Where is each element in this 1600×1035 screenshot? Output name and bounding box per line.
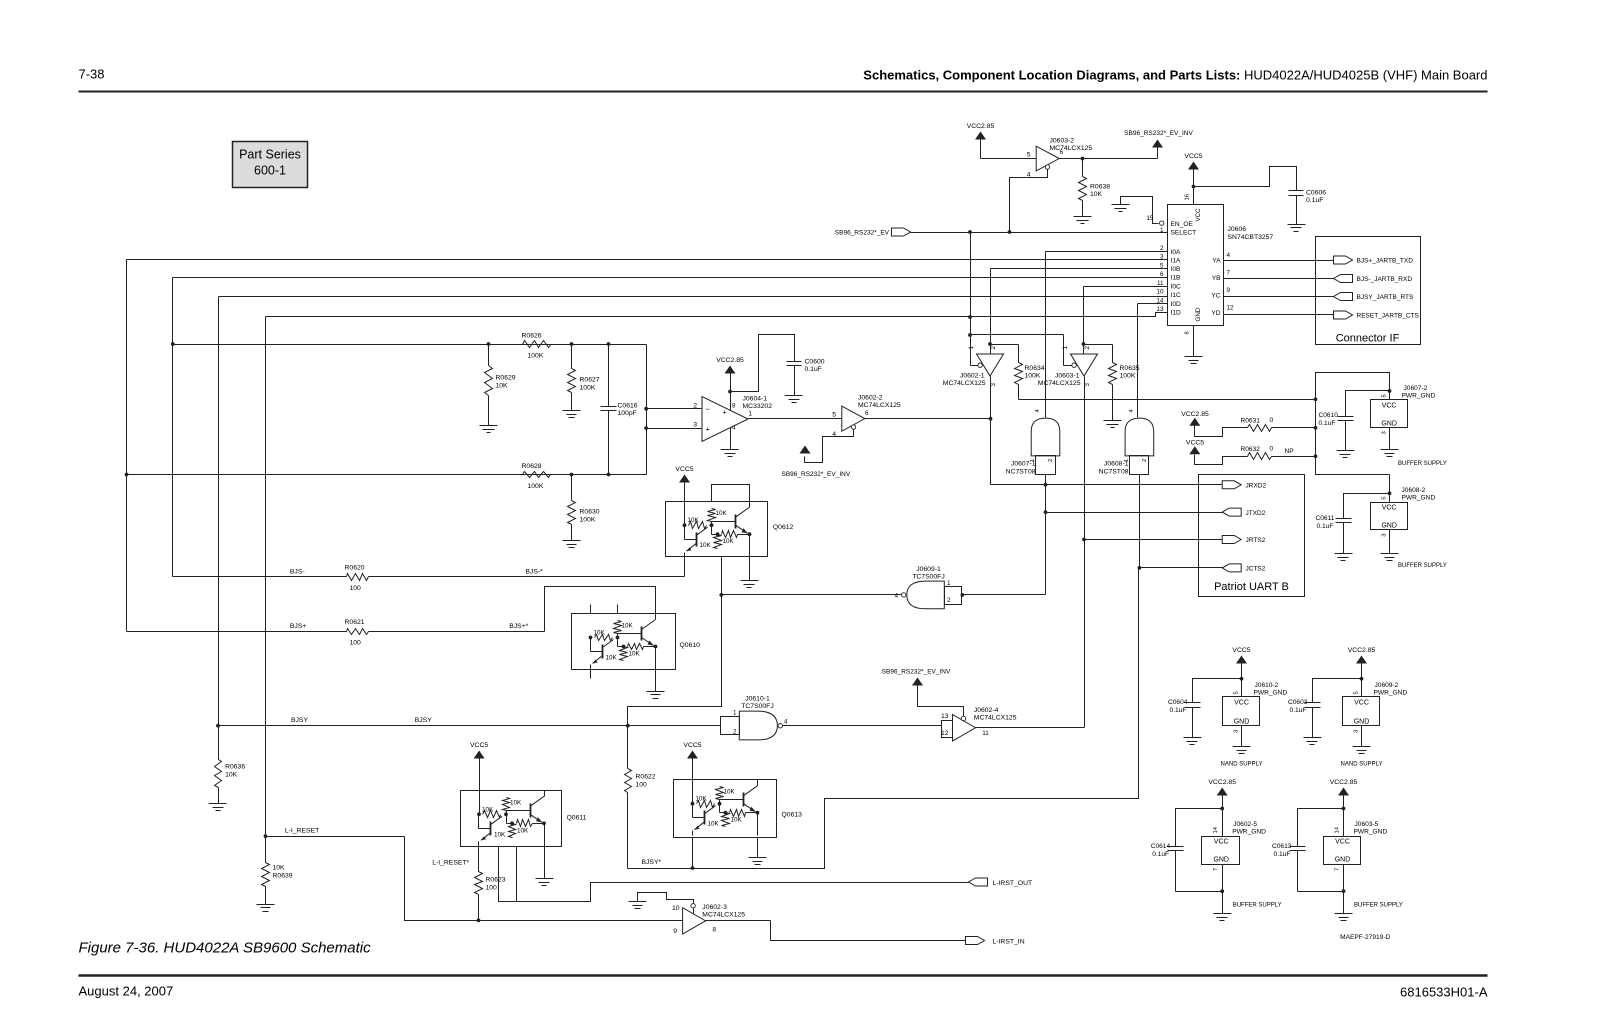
port arrow JRTS2 (1222, 536, 1265, 545)
resistor R0632 (1241, 446, 1316, 460)
svg-text:5: 5 (1027, 152, 1031, 159)
svg-text:SELECT: SELECT (1171, 230, 1197, 237)
wire JTXD2 (1046, 512, 1223, 514)
wire J0607-2 gnd (1381, 428, 1399, 457)
svg-text:BJS+_JARTB_TXD: BJS+_JARTB_TXD (1357, 258, 1414, 265)
svg-text:SB96_RS232*_EV_INV: SB96_RS232*_EV_INV (782, 471, 851, 478)
ground under R0629 (480, 426, 498, 433)
svg-text:10K: 10K (517, 827, 529, 834)
wire J0602-3 enable (638, 893, 694, 904)
svg-text:BJS-_JARTB_RXD: BJS-_JARTB_RXD (1357, 276, 1413, 283)
svg-text:R0636: R0636 (225, 764, 245, 771)
resistor R0630 (568, 475, 600, 541)
wire corner1 vertical (126, 260, 128, 632)
resistor R0636 (215, 726, 246, 804)
wire vcc to C0606 (1194, 167, 1297, 191)
svg-text:0: 0 (1270, 446, 1274, 453)
supply box J0607-2 (1371, 385, 1436, 435)
svg-text:3: 3 (1160, 254, 1164, 261)
vcc5 at Q0613 (683, 742, 701, 803)
svg-text:0.1uF: 0.1uF (1170, 707, 1187, 714)
vcc5 at chip (1184, 153, 1202, 205)
wire I1A bus (127, 259, 1168, 261)
svg-text:R0635: R0635 (1120, 365, 1140, 372)
buffer J0602-1 (943, 346, 1004, 387)
capacitor C0606 (1289, 190, 1327, 225)
vcc5 at Q0611 (470, 742, 488, 814)
svg-text:BJS-: BJS- (290, 569, 305, 576)
svg-text:JCTS2: JCTS2 (1246, 566, 1266, 573)
svg-text:10K: 10K (225, 772, 238, 779)
bubble J0602-1 (978, 363, 982, 367)
svg-text:10K: 10K (700, 542, 712, 549)
svg-text:Part Series: Part Series (239, 148, 301, 162)
svg-text:J0608-2: J0608-2 (1402, 487, 1426, 494)
svg-text:3: 3 (693, 422, 697, 429)
svg-text:SB96_RS232*_EV_INV: SB96_RS232*_EV_INV (882, 669, 951, 676)
svg-text:PWR_GND: PWR_GND (1374, 690, 1408, 697)
svg-text:L-I_RESET: L-I_RESET (285, 828, 319, 835)
svg-text:PWR_GND: PWR_GND (1232, 829, 1266, 836)
wire L-I_RESET drop (405, 837, 683, 923)
svg-text:5: 5 (1382, 394, 1388, 397)
svg-text:R0627: R0627 (580, 377, 600, 384)
ground to EN_OE (1112, 197, 1159, 224)
svg-text:3: 3 (1354, 730, 1360, 733)
svg-text:R0629: R0629 (496, 375, 516, 382)
resistor R0635 (1109, 363, 1140, 421)
svg-text:2: 2 (693, 403, 697, 410)
transistor pack Q0610 (572, 614, 701, 670)
footer rule (79, 974, 1488, 977)
svg-text:I0B: I0B (1171, 266, 1181, 273)
svg-text:VCC5: VCC5 (1184, 153, 1202, 160)
part series callout box (233, 142, 308, 188)
svg-text:BJSY*: BJSY* (642, 859, 662, 866)
wire enable into J0602-1 (971, 365, 978, 367)
wire opamp pin3 feed (644, 426, 701, 430)
svg-text:NC7ST08: NC7ST08 (1006, 469, 1036, 476)
svg-text:10K: 10K (482, 806, 494, 813)
svg-text:3: 3 (1234, 730, 1240, 733)
svg-text:+: + (706, 425, 711, 434)
vcc2.85 R0631 (1181, 411, 1247, 437)
svg-text:2: 2 (1142, 459, 1148, 462)
wire J0602-3 out (706, 921, 966, 941)
wire J0603-1 out (1082, 377, 1086, 542)
svg-text:J0602-4: J0602-4 (974, 707, 999, 714)
wire YA (1224, 260, 1334, 262)
gate J0608-1 (1099, 409, 1154, 476)
vcc2.85 at op-amp (716, 357, 744, 411)
svg-text:4: 4 (784, 719, 788, 726)
svg-text:Q0613: Q0613 (782, 812, 803, 819)
svg-text:I0A: I0A (1171, 249, 1181, 256)
svg-text:6: 6 (865, 410, 869, 417)
svg-text:1: 1 (968, 346, 975, 350)
chip right pin numbers (1227, 252, 1235, 312)
svg-text:GND: GND (1381, 523, 1397, 530)
svg-text:VCC2.85: VCC2.85 (1348, 647, 1376, 654)
svg-text:6: 6 (1060, 149, 1064, 156)
buffer J0603-2 (1027, 138, 1093, 179)
wire gate1 out (1044, 475, 1048, 595)
svg-text:MC74LCX125: MC74LCX125 (943, 380, 986, 387)
port arrow JCTS2 (1222, 564, 1266, 573)
svg-text:0.1uF: 0.1uF (1319, 420, 1336, 427)
resistor R0620 (345, 565, 369, 593)
net label BJS+ (290, 623, 306, 630)
svg-text:10K: 10K (688, 517, 700, 524)
wire gate2 out (1139, 475, 1141, 568)
svg-text:VCC: VCC (1335, 839, 1350, 846)
svg-text:NAND SUPPLY: NAND SUPPLY (1341, 762, 1383, 768)
svg-text:VCC2.85: VCC2.85 (967, 123, 995, 130)
svg-text:VCC: VCC (1214, 839, 1229, 846)
svg-text:10K: 10K (273, 865, 286, 872)
svg-text:August 24, 2007: August 24, 2007 (79, 984, 174, 999)
svg-text:2: 2 (947, 597, 951, 604)
svg-text:0: 0 (1270, 417, 1274, 424)
supply box J0608-2 (1371, 487, 1436, 537)
net arrow SB96_RS232*_EV_INV low (882, 669, 951, 686)
Patriot UART B box (1199, 475, 1305, 597)
svg-text:10K: 10K (1090, 191, 1103, 198)
op-amp J0604-1 (693, 396, 772, 442)
net label L-I_RESET* (432, 860, 469, 867)
wire Q0613 stub to BJSY* (691, 838, 695, 870)
svg-text:VCC2.85: VCC2.85 (1181, 411, 1209, 418)
wire J0609-1 out (719, 593, 901, 597)
wire J0603-2 out (1060, 158, 1158, 160)
buffer J0602-4 (941, 707, 1017, 741)
svg-text:4: 4 (894, 593, 898, 600)
svg-text:7: 7 (1335, 868, 1341, 871)
wire JRTS2 (1085, 539, 1223, 541)
wire I0C (1084, 287, 1168, 355)
wire J0602-2 out (865, 418, 991, 420)
resistor R0621 (345, 619, 369, 647)
svg-text:I1B: I1B (1171, 275, 1181, 282)
supply block J0602-5 (1151, 779, 1282, 921)
gate J0607-1 (1006, 409, 1060, 476)
page header left (79, 67, 105, 82)
svg-text:6: 6 (1160, 271, 1164, 278)
svg-text:100K: 100K (528, 483, 544, 490)
port arrow BJSY_JARTB_RTS (1334, 293, 1415, 302)
chip left pin names (1171, 249, 1181, 317)
svg-text:10: 10 (1156, 289, 1164, 296)
wire J0602-1 in (988, 342, 992, 346)
page header right (863, 68, 1487, 83)
svg-text:VCC2.85: VCC2.85 (1208, 779, 1236, 786)
svg-text:J0603-5: J0603-5 (1355, 821, 1379, 828)
svg-text:12: 12 (1227, 305, 1235, 312)
svg-text:J0604-1: J0604-1 (743, 396, 768, 403)
ground under R0638 (1074, 217, 1092, 224)
Q0610 bottom stub (590, 670, 592, 679)
svg-text:SB96_RS232*_EV: SB96_RS232*_EV (835, 230, 890, 237)
svg-text:VCC5: VCC5 (683, 742, 701, 749)
svg-text:13: 13 (941, 713, 949, 720)
svg-text:Q0610: Q0610 (680, 642, 701, 649)
svg-text:R0626: R0626 (522, 333, 542, 340)
svg-text:C0610: C0610 (1319, 412, 1339, 419)
net label BJS- (290, 569, 305, 576)
svg-text:VCC5: VCC5 (675, 466, 693, 473)
svg-text:5: 5 (832, 412, 836, 419)
svg-text:VCC: VCC (1382, 505, 1397, 512)
svg-text:100K: 100K (528, 353, 544, 360)
port arrow BJS+_JARTB_TXD (1334, 256, 1414, 265)
svg-text:J0609-2: J0609-2 (1375, 682, 1399, 689)
Connector IF box (1316, 237, 1421, 345)
wire J0603-2 enable (1010, 170, 1048, 233)
svg-text:PWR_GND: PWR_GND (1402, 495, 1436, 502)
resistor R0628 (522, 463, 551, 490)
rail J0608-2 (1316, 475, 1392, 503)
wire J0609-1 inputs (961, 593, 965, 597)
svg-text:J0607-2: J0607-2 (1404, 385, 1428, 392)
svg-text:1: 1 (749, 411, 753, 418)
svg-text:TC7S00FJ: TC7S00FJ (912, 574, 944, 581)
capacitor C0611 (1316, 494, 1390, 554)
buffer J0602-2 (832, 395, 901, 439)
svg-text:J0602-3: J0602-3 (702, 904, 727, 911)
svg-text:Q0611: Q0611 (567, 815, 587, 822)
svg-text:C0616: C0616 (618, 403, 638, 410)
svg-text:J0610-2: J0610-2 (1255, 682, 1279, 689)
svg-text:MC74LCX125: MC74LCX125 (702, 912, 745, 919)
ground under R0627 (563, 411, 581, 418)
wire I0D (1138, 304, 1168, 418)
svg-text:0.1uF: 0.1uF (1290, 707, 1307, 714)
resistor R0622 (625, 726, 656, 869)
svg-text:VCC5: VCC5 (470, 742, 488, 749)
bubble J0610-1 (778, 724, 782, 728)
ground under C0610 (1337, 451, 1355, 458)
wire corner3 vertical (218, 297, 220, 726)
svg-text:MAEPF-27919-D: MAEPF-27919-D (1340, 934, 1390, 941)
net label SB96_RS232*_EV (835, 230, 890, 237)
svg-text:VCC2.85: VCC2.85 (716, 357, 744, 364)
capacitor C0600 (731, 335, 825, 396)
wire BJSY* to JCTS2 (628, 568, 1139, 869)
svg-text:10K: 10K (622, 623, 634, 630)
ground under C0611 (1335, 554, 1353, 561)
ground under R0630 (563, 541, 581, 548)
svg-text:Patriot UART B: Patriot UART B (1214, 581, 1289, 593)
wire enable drop (968, 233, 1071, 366)
svg-text:C0614: C0614 (1151, 843, 1171, 850)
text buffer supply 2 (1398, 563, 1447, 569)
svg-text:10K: 10K (494, 831, 506, 838)
svg-text:MC74LCX125: MC74LCX125 (974, 715, 1017, 722)
wire BJSY row (216, 724, 720, 728)
rail J0607-2 (1314, 373, 1392, 475)
svg-text:L-I_RESET*: L-I_RESET* (432, 860, 469, 867)
svg-text:JRXD2: JRXD2 (1246, 483, 1267, 490)
svg-text:10K: 10K (594, 630, 606, 637)
svg-text:J0608-1: J0608-1 (1104, 461, 1129, 468)
svg-text:3: 3 (1084, 383, 1091, 387)
svg-text:100: 100 (350, 585, 362, 592)
footer doc number (1400, 985, 1488, 1000)
figure caption (79, 940, 372, 957)
svg-text:BJSY_JARTB_RTS: BJSY_JARTB_RTS (1357, 294, 1415, 301)
ground under R0639 (257, 905, 275, 912)
svg-text:600-1: 600-1 (254, 164, 286, 178)
svg-text:GND: GND (1354, 718, 1370, 725)
svg-text:R0638: R0638 (1090, 184, 1110, 191)
svg-text:NC7ST08: NC7ST08 (1099, 469, 1129, 476)
chip right pin names (1211, 258, 1221, 318)
svg-text:10K: 10K (510, 799, 522, 806)
wire J0602-1 input stub (991, 344, 1019, 346)
svg-text:BUFFER SUPPLY: BUFFER SUPPLY (1354, 903, 1403, 909)
svg-text:12: 12 (941, 730, 949, 737)
wire gate1out to nand inputs (963, 594, 1046, 596)
wire SELECT (911, 230, 1168, 234)
Q0610 top stubs (591, 605, 618, 614)
svg-text:YB: YB (1212, 275, 1221, 282)
svg-text:4: 4 (732, 425, 736, 432)
svg-text:R0622: R0622 (636, 774, 656, 781)
svg-text:GND: GND (1335, 857, 1351, 864)
svg-text:J0602-1: J0602-1 (960, 372, 985, 379)
node line4 enable (968, 315, 972, 319)
svg-text:−: − (706, 405, 711, 414)
buffer J0603-1 (1038, 346, 1098, 387)
wire L-I_RESET row (264, 834, 405, 838)
svg-text:Q0612: Q0612 (773, 524, 794, 531)
wire I1D bus (line4) (266, 313, 1168, 317)
svg-text:2: 2 (1160, 245, 1164, 252)
node A-R0627 (570, 342, 574, 346)
port arrow JRXD2 (1222, 481, 1266, 490)
svg-text:7: 7 (1227, 270, 1231, 277)
svg-text:I0C: I0C (1171, 284, 1181, 291)
svg-text:VCC5: VCC5 (1232, 647, 1250, 654)
svg-text:15: 15 (1146, 215, 1154, 222)
port arrow L-IRST_OUT (969, 878, 1033, 887)
svg-text:R0630: R0630 (580, 509, 600, 516)
vcc5 at Q0612 (675, 466, 693, 525)
svg-text:SN74CBT3257: SN74CBT3257 (1228, 234, 1274, 241)
svg-text:C0613: C0613 (1272, 843, 1292, 850)
svg-text:I1D: I1D (1171, 310, 1181, 317)
resistor R0638 (1079, 159, 1111, 217)
port arrow BJS-_JARTB_RXD (1334, 275, 1413, 284)
supply block J0603-5 (1272, 779, 1403, 921)
svg-text:R0628: R0628 (522, 463, 542, 470)
wire J0602-4 enable (918, 686, 964, 717)
svg-text:C0603: C0603 (1288, 699, 1308, 706)
bubble J0602-2 enable (851, 425, 855, 429)
gate J0609-1 label (912, 566, 944, 581)
svg-text:2: 2 (1084, 346, 1091, 350)
svg-text:100K: 100K (1120, 373, 1136, 380)
svg-text:J0603-2: J0603-2 (1050, 138, 1075, 145)
ground under C0600 (785, 396, 803, 403)
svg-text:J0602-5: J0602-5 (1233, 821, 1257, 828)
svg-text:R0631: R0631 (1241, 418, 1261, 425)
svg-text:R0639: R0639 (273, 873, 293, 880)
svg-text:SB96_RS232*_EV_INV: SB96_RS232*_EV_INV (1124, 130, 1193, 137)
svg-text:4: 4 (1227, 252, 1231, 259)
svg-text:GND: GND (1234, 718, 1250, 725)
ground at J0602-3 enable (629, 902, 647, 909)
resistor R0627 (568, 345, 600, 411)
svg-text:C0600: C0600 (805, 359, 825, 366)
svg-text:TC7S00FJ: TC7S00FJ (741, 703, 773, 710)
svg-text:10K: 10K (731, 817, 743, 824)
text MAEPF (1340, 934, 1390, 941)
wire I0B (991, 269, 1168, 355)
ground under Q0613 (749, 838, 767, 865)
svg-text:J0610-1: J0610-1 (745, 695, 770, 702)
svg-text:VCC2.85: VCC2.85 (1330, 779, 1358, 786)
svg-text:R0632: R0632 (1241, 446, 1261, 453)
wire BJS+* row (369, 587, 656, 632)
svg-text:J0607-1: J0607-1 (1011, 461, 1036, 468)
svg-text:GND: GND (1195, 307, 1202, 321)
footer date (79, 984, 174, 999)
resistor R0629 (485, 345, 516, 426)
svg-text:YA: YA (1212, 258, 1221, 265)
svg-text:L-IRST_IN: L-IRST_IN (993, 939, 1025, 946)
wire R0634 to rail (1019, 399, 1316, 401)
net label BJSY 2 (415, 717, 432, 724)
svg-text:BJS-*: BJS-* (525, 569, 543, 576)
svg-text:VCC: VCC (1382, 403, 1397, 410)
wire YC (1224, 296, 1334, 298)
buffer J0602-3 (672, 904, 745, 935)
svg-text:R0621: R0621 (345, 619, 365, 626)
wire BJS- row (173, 576, 347, 578)
svg-text:C0604: C0604 (1168, 699, 1188, 706)
svg-text:14: 14 (1335, 826, 1341, 833)
svg-text:14: 14 (1213, 826, 1219, 833)
wire J0602-1 out (989, 377, 993, 485)
svg-text:VCC: VCC (1195, 208, 1202, 222)
svg-text:13: 13 (1156, 306, 1164, 313)
svg-text:100K: 100K (580, 385, 596, 392)
chip left pin numbers (1156, 227, 1164, 313)
wire J0610-1 out (783, 721, 953, 738)
svg-text:8: 8 (1185, 331, 1191, 334)
svg-text:5: 5 (1382, 496, 1388, 499)
svg-text:L-IRST_OUT: L-IRST_OUT (993, 880, 1033, 887)
svg-text:C0606: C0606 (1306, 190, 1326, 197)
svg-text:YD: YD (1211, 310, 1220, 317)
net label BJSY* (642, 859, 662, 866)
svg-text:10K: 10K (629, 651, 641, 658)
svg-text:100: 100 (636, 782, 648, 789)
svg-text:10K: 10K (716, 510, 728, 517)
svg-text:+: + (723, 408, 728, 417)
svg-text:3: 3 (1382, 431, 1388, 434)
ground under R0636 (209, 804, 227, 811)
resistor R0626 (522, 333, 551, 360)
wire opamp pin2 feed (644, 407, 701, 411)
net label L-I_RESET (285, 828, 319, 835)
svg-text:1: 1 (1062, 346, 1069, 350)
resistor R0639 (262, 837, 293, 905)
net label BJSY 1 (291, 717, 308, 724)
wire Q0612pin to BJSY (628, 595, 722, 726)
svg-text:Connector IF: Connector IF (1336, 333, 1400, 345)
